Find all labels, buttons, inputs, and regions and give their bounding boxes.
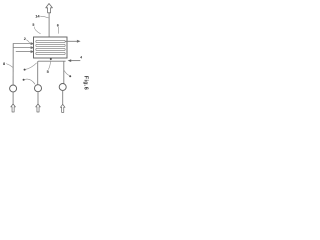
furnace box — [34, 37, 68, 58]
coil tube 2 — [36, 44, 65, 46]
pump P3 feed arrow — [60, 104, 65, 112]
svg-text:5: 5 — [32, 23, 34, 27]
top product outlet arrow — [65, 40, 77, 42]
svg-text:2: 2 — [24, 37, 26, 41]
bottom manifold — [38, 61, 66, 85]
pump P2 — [35, 85, 42, 92]
pump P2 stem — [37, 92, 39, 105]
junction dot on box bottom — [50, 58, 52, 60]
feed line 2 — [13, 47, 31, 49]
pump P3 stem — [62, 91, 64, 105]
label 5 leader — [48, 61, 50, 70]
coil tube 3 — [36, 48, 65, 50]
stack outlet hollow arrow — [46, 4, 53, 13]
pump P2 feed arrow — [36, 104, 41, 112]
bottom-right inlet arrow — [68, 59, 72, 62]
svg-text:5: 5 — [47, 70, 49, 74]
leader dot to manifold corner — [24, 69, 26, 71]
pump P1 feed arrow — [11, 104, 16, 112]
feed line 1 — [13, 43, 31, 45]
svg-text:8: 8 — [3, 62, 5, 66]
pump P1 — [10, 85, 17, 92]
leader dot to right riser — [69, 75, 71, 77]
svg-text:4: 4 — [80, 55, 82, 59]
coil tube 4 — [36, 52, 65, 54]
coil tube 1 — [36, 40, 65, 42]
svg-text:6: 6 — [57, 23, 59, 27]
pump P1 stem — [12, 92, 14, 104]
feed riser pipe left — [12, 43, 14, 85]
leader dot to middle riser — [23, 79, 25, 81]
svg-text:Fig.6: Fig.6 — [83, 76, 89, 90]
pump P3 — [59, 84, 66, 91]
stack pipe — [48, 13, 50, 37]
feed line 3 — [16, 51, 31, 53]
svg-text:14: 14 — [35, 14, 40, 19]
